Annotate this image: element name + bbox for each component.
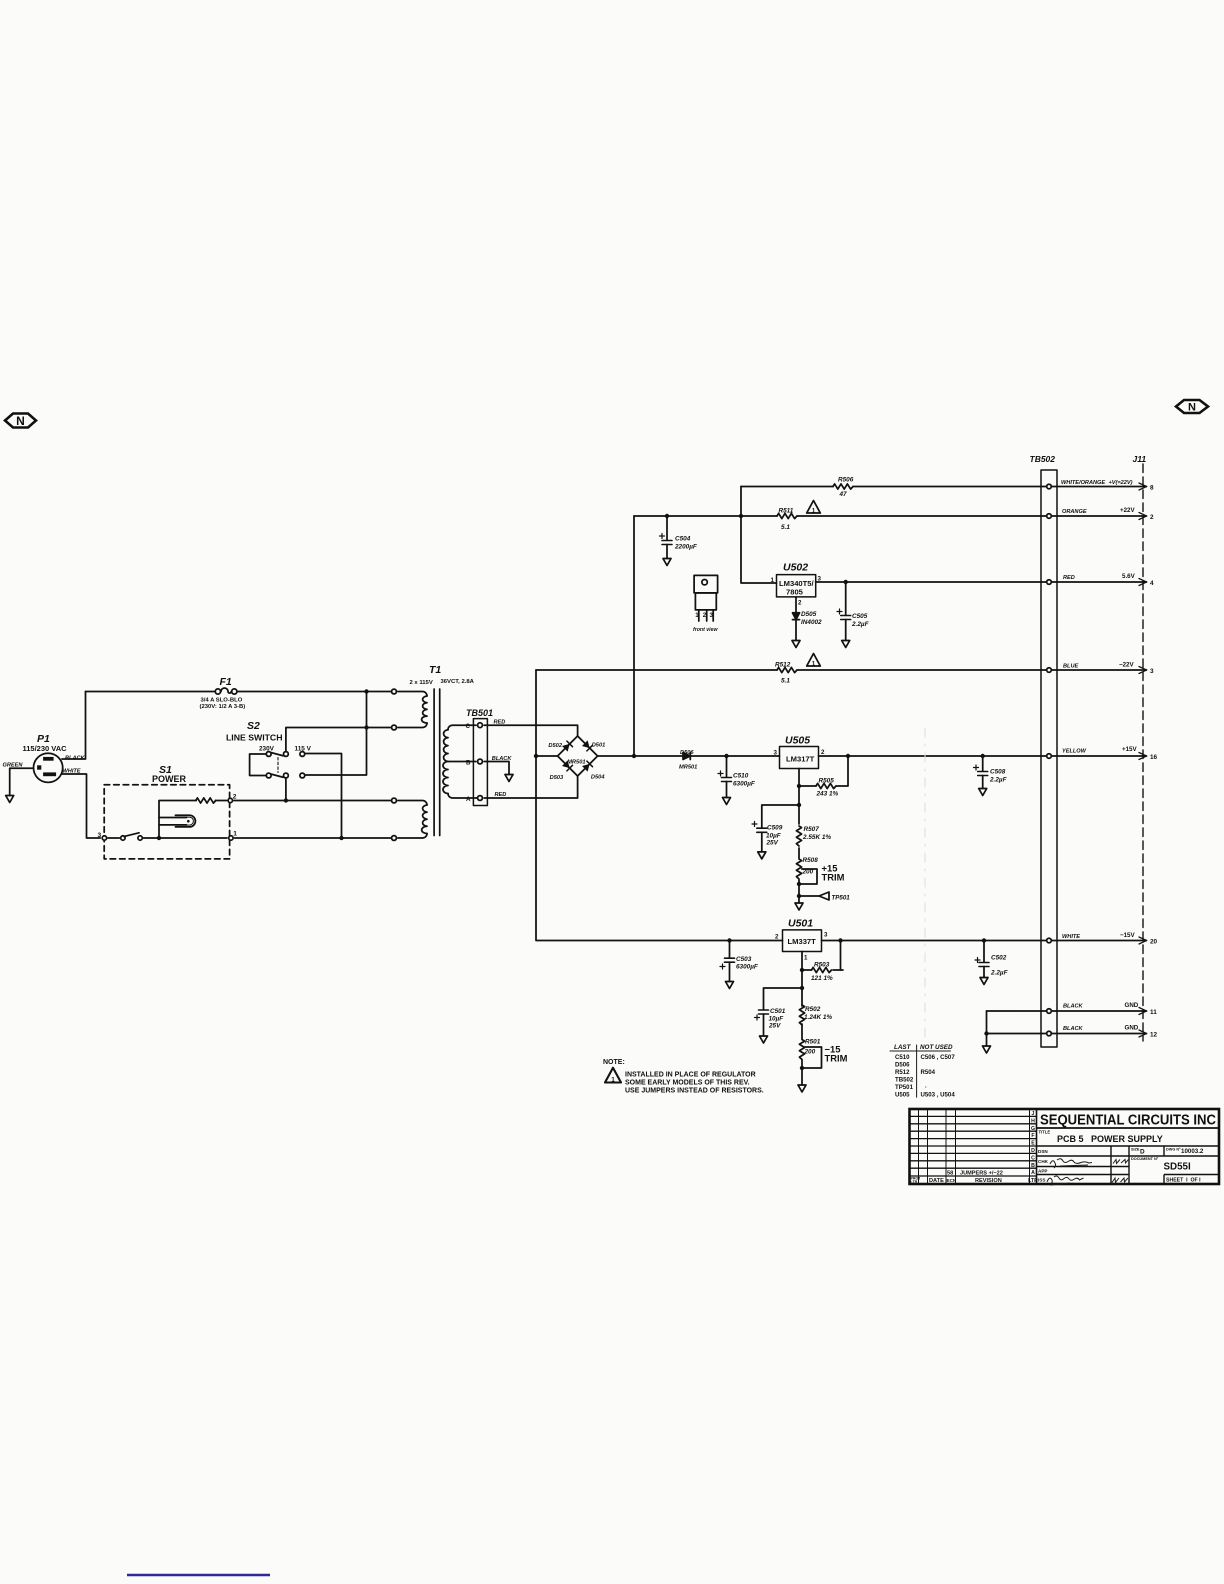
svg-text:C503: C503 — [736, 956, 752, 963]
svg-text:U505: U505 — [785, 735, 810, 747]
svg-text:B: B — [466, 760, 471, 767]
svg-text:RED: RED — [495, 792, 507, 798]
svg-text:115 V: 115 V — [295, 746, 312, 753]
svg-text:12: 12 — [1150, 1032, 1158, 1039]
svg-text:SIZE: SIZE — [1131, 1148, 1140, 1152]
svg-text:R511: R511 — [779, 508, 794, 515]
svg-text:−22V: −22V — [1119, 662, 1134, 669]
svg-text:2200µF: 2200µF — [674, 544, 698, 551]
svg-text:R512: R512 — [775, 662, 791, 669]
svg-text:5.6V: 5.6V — [1122, 573, 1136, 580]
svg-text:1: 1 — [233, 831, 237, 838]
svg-text:R502: R502 — [805, 1006, 821, 1013]
svg-text:6300µF: 6300µF — [733, 781, 756, 788]
svg-text:DATE: DATE — [929, 1178, 944, 1184]
svg-text:D505: D505 — [801, 611, 817, 618]
svg-text:CHK: CHK — [1038, 1159, 1049, 1164]
svg-text:5.1: 5.1 — [781, 524, 790, 531]
svg-text:R505: R505 — [819, 778, 835, 785]
svg-text:BLACK: BLACK — [492, 756, 513, 762]
svg-text:D501: D501 — [592, 743, 606, 749]
svg-text:2: 2 — [703, 612, 707, 619]
svg-text:H: H — [1031, 1118, 1035, 1124]
svg-text:LAST: LAST — [894, 1044, 912, 1051]
svg-text:C: C — [466, 723, 471, 730]
svg-text:3: 3 — [1150, 668, 1154, 675]
svg-text:10µF: 10µF — [766, 833, 782, 840]
svg-text:A: A — [466, 796, 471, 803]
svg-text:3/4 A SLO-BLO: 3/4 A SLO-BLO — [201, 698, 243, 704]
svg-text:25V: 25V — [766, 840, 779, 847]
svg-text:TB502: TB502 — [895, 1077, 914, 1084]
svg-text:−15V: −15V — [1120, 932, 1135, 939]
svg-text:ORANGE: ORANGE — [1062, 509, 1087, 515]
svg-text:TB501: TB501 — [466, 708, 493, 718]
svg-text:R506: R506 — [838, 477, 854, 484]
svg-text:U503 , U504: U503 , U504 — [921, 1092, 956, 1099]
svg-text:1: 1 — [804, 955, 808, 962]
svg-text:36VCT, 2.8A: 36VCT, 2.8A — [441, 679, 475, 685]
svg-text:1: 1 — [695, 612, 699, 619]
svg-text:R504: R504 — [921, 1069, 936, 1076]
svg-text:SD55I: SD55I — [1164, 1162, 1192, 1173]
svg-text:REVISION: REVISION — [975, 1178, 1002, 1184]
svg-text:U501: U501 — [788, 918, 813, 930]
svg-text:5.1: 5.1 — [781, 678, 790, 685]
svg-text:JUMPERS +/−22: JUMPERS +/−22 — [960, 1171, 1003, 1177]
svg-text:LTR: LTR — [1028, 1178, 1038, 1184]
svg-text:TRIM: TRIM — [822, 872, 845, 883]
svg-text:PCB 5 POWER SUPPLY: PCB 5 POWER SUPPLY — [1057, 1134, 1163, 1144]
svg-text:10µF: 10µF — [769, 1016, 785, 1023]
svg-text:2: 2 — [233, 794, 237, 801]
svg-text:2.2µF: 2.2µF — [989, 777, 1008, 784]
svg-text:200: 200 — [802, 869, 814, 876]
svg-text:USE JUMPERS INSTEAD OF RESISTO: USE JUMPERS INSTEAD OF RESISTORS. — [625, 1088, 764, 1095]
svg-text:R512: R512 — [895, 1069, 910, 1076]
svg-text:LM317T: LM317T — [786, 755, 815, 764]
svg-text:C: C — [1031, 1155, 1035, 1161]
svg-text:3: 3 — [824, 932, 828, 939]
svg-text:BLACK: BLACK — [1063, 1004, 1084, 1010]
svg-text:POWER: POWER — [152, 774, 187, 784]
svg-text:C501: C501 — [770, 1008, 786, 1015]
svg-text:1: 1 — [771, 577, 775, 584]
svg-text:front view: front view — [693, 627, 718, 633]
svg-text:SOME EARLY MODELS OF THIS REV.: SOME EARLY MODELS OF THIS REV. — [625, 1080, 750, 1087]
svg-text:BLACK: BLACK — [65, 756, 86, 762]
svg-text:TP501: TP501 — [895, 1084, 914, 1091]
svg-text:RED: RED — [494, 720, 506, 726]
svg-text:E: E — [1031, 1141, 1035, 1147]
svg-text:2.2µF: 2.2µF — [990, 970, 1009, 977]
svg-text:·: · — [925, 1084, 927, 1091]
svg-text:YELLOW: YELLOW — [1062, 749, 1087, 755]
svg-text:11: 11 — [1150, 1009, 1157, 1016]
svg-text:2: 2 — [1150, 514, 1154, 521]
svg-text:SHEET I OF I: SHEET I OF I — [1166, 1178, 1201, 1184]
svg-text:C505: C505 — [852, 613, 868, 620]
svg-text:3: 3 — [818, 576, 822, 583]
svg-text:GND: GND — [1125, 1025, 1139, 1032]
svg-text:200: 200 — [804, 1049, 816, 1056]
svg-text:25V: 25V — [768, 1023, 781, 1030]
svg-text:D506: D506 — [680, 750, 694, 756]
svg-text:J: J — [1032, 1111, 1035, 1117]
svg-text:C502: C502 — [991, 955, 1007, 962]
svg-text:4: 4 — [1150, 580, 1154, 587]
svg-text:(230V: 1/2 A 3-B): (230V: 1/2 A 3-B) — [200, 704, 246, 710]
svg-text:GND: GND — [1125, 1002, 1139, 1009]
svg-text:B: B — [1031, 1163, 1035, 1169]
svg-text:3: 3 — [774, 750, 778, 757]
svg-text:C510: C510 — [733, 773, 749, 780]
svg-text:APP: APP — [1038, 1169, 1047, 1174]
svg-text:C506 , C507: C506 , C507 — [921, 1054, 956, 1061]
svg-text:R508: R508 — [803, 857, 819, 864]
svg-text:7805: 7805 — [786, 588, 804, 597]
svg-text:NOT USED: NOT USED — [920, 1044, 953, 1051]
svg-text:2.2µF: 2.2µF — [851, 621, 870, 628]
svg-text:GREEN: GREEN — [3, 763, 24, 769]
svg-text:115/230 VAC: 115/230 VAC — [23, 744, 68, 753]
svg-text:WHITE: WHITE — [63, 769, 81, 775]
svg-text:MR501: MR501 — [679, 765, 697, 771]
svg-text:+22V: +22V — [1120, 507, 1135, 514]
svg-text:C508: C508 — [990, 769, 1006, 776]
svg-text:J11: J11 — [1133, 454, 1147, 464]
svg-text:NOTE:: NOTE: — [603, 1059, 625, 1066]
svg-text:TP501: TP501 — [832, 895, 851, 902]
svg-text:D502: D502 — [548, 743, 562, 749]
svg-text:SEQUENTIAL CIRCUITS INC: SEQUENTIAL CIRCUITS INC — [1040, 1113, 1216, 1129]
svg-text:10003.2: 10003.2 — [1181, 1148, 1204, 1155]
svg-text:ISS: ISS — [1038, 1178, 1045, 1183]
svg-text:DSN: DSN — [1038, 1149, 1048, 1154]
svg-text:2 x 115V: 2 x 115V — [410, 680, 433, 686]
svg-text:DOCUMENT Nº: DOCUMENT Nº — [1131, 1157, 1159, 1161]
svg-text:243 1%: 243 1% — [816, 791, 839, 798]
svg-text:INSTALLED IN PLACE OF REGULATO: INSTALLED IN PLACE OF REGULATOR — [625, 1072, 756, 1079]
svg-text:TRIM: TRIM — [825, 1053, 848, 1064]
svg-text:6300µF: 6300µF — [736, 964, 759, 971]
svg-text:3: 3 — [98, 832, 102, 839]
svg-text:N: N — [16, 414, 25, 428]
svg-text:WHITE: WHITE — [1062, 934, 1080, 940]
svg-text:16: 16 — [1150, 754, 1158, 761]
svg-text:N: N — [1188, 402, 1196, 414]
svg-text:121 1%: 121 1% — [811, 975, 833, 982]
svg-text:230V: 230V — [259, 746, 275, 753]
svg-text:R501: R501 — [805, 1039, 821, 1046]
svg-text:BLACK: BLACK — [1063, 1026, 1084, 1032]
svg-text:1.24K 1%: 1.24K 1% — [804, 1014, 832, 1021]
svg-text:G: G — [1031, 1126, 1035, 1132]
svg-text:2: 2 — [775, 934, 779, 941]
svg-text:MR501: MR501 — [567, 760, 585, 766]
svg-text:+V(=22V): +V(=22V) — [1109, 480, 1133, 486]
svg-text:47: 47 — [839, 491, 848, 498]
svg-text:2: 2 — [798, 600, 802, 607]
svg-text:S2: S2 — [247, 720, 260, 732]
svg-text:T1: T1 — [429, 664, 441, 676]
svg-text:WHITE/ORANGE: WHITE/ORANGE — [1061, 480, 1105, 486]
svg-text:C504: C504 — [675, 536, 691, 543]
svg-text:LTR: LTR — [911, 1180, 918, 1184]
svg-text:ECN: ECN — [947, 1178, 957, 1183]
svg-text:58: 58 — [947, 1171, 953, 1177]
svg-text:DWG Nº: DWG Nº — [1166, 1148, 1181, 1152]
svg-text:D506: D506 — [895, 1062, 910, 1069]
svg-text:D503: D503 — [550, 775, 564, 781]
svg-text:TITLE: TITLE — [1039, 1130, 1051, 1135]
svg-text:LINE SWITCH: LINE SWITCH — [226, 733, 282, 743]
svg-text:F: F — [1031, 1133, 1034, 1139]
svg-text:BLUE: BLUE — [1063, 664, 1078, 670]
svg-text:R503: R503 — [814, 961, 830, 968]
svg-text:F1: F1 — [220, 676, 232, 688]
svg-text:2.55K 1%: 2.55K 1% — [802, 834, 831, 841]
svg-text:IN4002: IN4002 — [801, 619, 822, 626]
svg-text:LM337T: LM337T — [788, 937, 817, 946]
svg-text:+15V: +15V — [1122, 746, 1137, 753]
svg-text:D: D — [1140, 1149, 1145, 1156]
svg-text:D: D — [1031, 1148, 1035, 1154]
svg-text:R507: R507 — [804, 826, 820, 833]
svg-text:TB502: TB502 — [1030, 454, 1056, 464]
svg-text:U502: U502 — [783, 562, 808, 574]
svg-text:U505: U505 — [895, 1092, 910, 1099]
svg-text:C510: C510 — [895, 1054, 910, 1061]
svg-text:D504: D504 — [591, 775, 605, 781]
svg-text:C509: C509 — [767, 825, 783, 832]
svg-text:8: 8 — [1150, 485, 1154, 492]
svg-text:20: 20 — [1150, 939, 1158, 946]
svg-text:A: A — [1031, 1170, 1035, 1176]
svg-text:3: 3 — [710, 612, 714, 619]
svg-text:RED: RED — [1063, 575, 1075, 581]
svg-text:2: 2 — [821, 749, 825, 756]
